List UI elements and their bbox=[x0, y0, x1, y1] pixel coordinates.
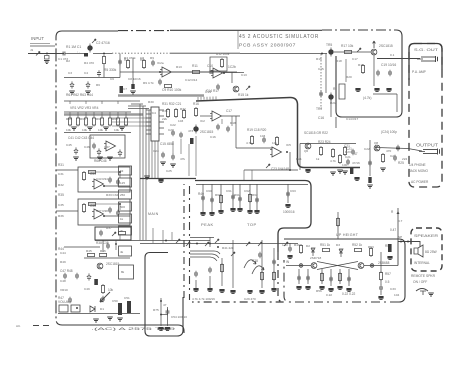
svg-text:0.22: 0.22 bbox=[326, 293, 332, 297]
wire left lead bbox=[286, 265, 311, 267]
svg-text:C63: C63 bbox=[290, 189, 296, 193]
resistor R17 bbox=[345, 50, 352, 53]
cap x103 bbox=[101, 296, 105, 302]
svg-text:IC5: IC5 bbox=[286, 143, 291, 147]
svg-text:R35: R35 bbox=[58, 193, 64, 197]
svg-text:PEAK: PEAK bbox=[201, 222, 214, 227]
wire drop from IC2a bbox=[222, 116, 232, 126]
ground2 bbox=[354, 177, 359, 180]
main board left edge (dash-dot) bbox=[56, 31, 62, 325]
grounds group2 bbox=[230, 208, 242, 211]
capacitor C6 bbox=[118, 59, 122, 65]
svg-text:C50: C50 bbox=[112, 299, 118, 303]
svg-text:R68: R68 bbox=[112, 117, 118, 121]
wire run to title area bbox=[170, 52, 240, 54]
resistor bbox=[343, 146, 346, 156]
ground at input bbox=[44, 61, 50, 64]
ground left bbox=[93, 319, 99, 322]
svg-text:2SC1815: 2SC1815 bbox=[200, 130, 214, 134]
feedback box around IC2 bbox=[210, 57, 227, 71]
ground C19 bbox=[374, 88, 379, 91]
wire TR6 emitter down bbox=[373, 55, 375, 86]
svg-text:100: 100 bbox=[342, 163, 347, 167]
IC4 left pin stubs bbox=[146, 110, 151, 134]
transistor Q3 bbox=[233, 86, 239, 92]
svg-text:0.47: 0.47 bbox=[390, 228, 396, 232]
svg-text:C51: C51 bbox=[124, 296, 130, 300]
svg-text:C29 470: C29 470 bbox=[244, 297, 256, 301]
transistor Q1 bbox=[87, 44, 92, 53]
svg-text:8k: 8k bbox=[121, 270, 125, 274]
stub verticals above bus bbox=[120, 228, 172, 243]
stage1 input wire bbox=[56, 169, 78, 171]
resistor bbox=[174, 108, 177, 118]
bus junction arrows mid bbox=[246, 242, 288, 246]
cap output sec bbox=[346, 159, 350, 165]
extra EQ wiring stubs bbox=[70, 112, 126, 118]
op-amp IC3 bbox=[104, 141, 116, 151]
ground bars peak group bbox=[200, 210, 223, 215]
arrow at Q1 bbox=[92, 39, 96, 43]
EQ block top rail bbox=[64, 100, 131, 102]
vertical rail x233 bbox=[232, 240, 234, 288]
svg-text:C33 R34: C33 R34 bbox=[96, 177, 108, 181]
electrolytic x370 bbox=[368, 177, 371, 183]
pot box VR12 bbox=[71, 305, 80, 312]
svg-text:C12 R14: C12 R14 bbox=[185, 78, 197, 82]
svg-text:C17: C17 bbox=[352, 57, 358, 61]
wire from IC2a to lower stage bbox=[235, 116, 237, 148]
svg-text:47: 47 bbox=[354, 152, 358, 156]
arrow in box3 bbox=[112, 232, 116, 236]
bus vertical bundle bbox=[140, 104, 149, 240]
input wire arrow bbox=[36, 52, 40, 56]
svg-text:R61 R62 R63 R64: R61 R62 R63 R64 bbox=[66, 93, 93, 97]
ground bbox=[160, 162, 166, 165]
pot wiper arrow bbox=[100, 292, 110, 302]
out wire box1 bbox=[104, 185, 130, 187]
first stage bus wire bbox=[64, 77, 120, 79]
power amp module A outline with step bbox=[195, 181, 311, 253]
ground TR6 bbox=[355, 88, 360, 91]
svg-text:R18: R18 bbox=[336, 59, 342, 63]
svg-text:250: 250 bbox=[120, 193, 125, 197]
capacitor C19 bbox=[376, 70, 380, 76]
electrolytic CB2 bbox=[127, 301, 131, 313]
extra bus arrows bbox=[205, 239, 219, 246]
svg-text:R46: R46 bbox=[100, 249, 106, 253]
svg-text:C7: C7 bbox=[123, 87, 127, 91]
board B bottom dashed edge bbox=[284, 260, 399, 302]
svg-text:R31 R32 C21: R31 R32 C21 bbox=[162, 102, 182, 106]
emitter resistor bank bbox=[320, 269, 351, 286]
svg-text:R9: R9 bbox=[150, 56, 154, 60]
comps in box3 bbox=[99, 230, 103, 236]
svg-text:C24: C24 bbox=[153, 149, 159, 153]
vertical stub x346 bbox=[345, 59, 347, 82]
transistor Q6 bbox=[305, 143, 311, 149]
density labels EQ bbox=[66, 117, 119, 149]
node bbox=[103, 53, 105, 55]
svg-text:470: 470 bbox=[386, 149, 391, 153]
box B: cap C30 bbox=[288, 246, 292, 252]
transistor Q9 bbox=[97, 263, 103, 269]
power amp module dashed left boundary bbox=[189, 186, 191, 300]
resistor R8 bbox=[142, 59, 145, 69]
svg-text:R9 4.7k: R9 4.7k bbox=[143, 81, 154, 85]
ground C20 bbox=[386, 88, 391, 91]
svg-text:1000/16: 1000/16 bbox=[283, 210, 295, 214]
electrolytic right bbox=[388, 244, 392, 252]
main board bottom edge bbox=[62, 325, 184, 333]
svg-text:4.7k 4.7k 100/16: 4.7k 4.7k 100/16 bbox=[192, 297, 215, 301]
svg-text:D3: D3 bbox=[336, 243, 340, 247]
down wires from IC area bbox=[173, 136, 196, 176]
cap bbox=[179, 132, 183, 138]
ground under C4 bbox=[85, 91, 91, 94]
output stage board B outline bbox=[284, 239, 405, 302]
svg-text:R40: R40 bbox=[198, 192, 204, 196]
left column stage box 2 bbox=[78, 199, 130, 225]
ground under C30 bbox=[287, 255, 292, 258]
resistor R20 bbox=[275, 136, 278, 146]
svg-text:(4.7k): (4.7k) bbox=[363, 96, 371, 100]
vertical wire x118 bbox=[119, 54, 121, 78]
resistor R19 bbox=[250, 135, 253, 145]
svg-text:R18: R18 bbox=[230, 121, 236, 125]
pot wiper arc 2 bbox=[252, 266, 264, 274]
svg-text:C48: C48 bbox=[60, 279, 66, 283]
svg-text:VR1 VR2 VR3 VR4: VR1 VR2 VR3 VR4 bbox=[70, 106, 99, 110]
svg-text:TOP: TOP bbox=[247, 222, 257, 227]
density labels midsection bbox=[162, 107, 347, 167]
stub verticals to module edge bbox=[244, 170, 252, 180]
wire y170 bbox=[244, 169, 298, 171]
svg-text:R33 C32: R33 C32 bbox=[106, 193, 118, 197]
tiny texts in slider boxes bbox=[120, 169, 125, 274]
speaker symbol bbox=[414, 245, 423, 257]
svg-text:R17 10k: R17 10k bbox=[341, 44, 354, 48]
op-amp IC2a mid bbox=[210, 111, 222, 121]
op-amp box2 bbox=[92, 209, 104, 219]
svg-text:45 2 ACOUSTIC SIMULATOR: 45 2 ACOUSTIC SIMULATOR bbox=[239, 34, 319, 40]
out wire box2 bbox=[104, 215, 130, 217]
input wire bbox=[28, 53, 64, 55]
svg-text:R2: R2 bbox=[66, 59, 70, 63]
caps under IC2a bbox=[216, 124, 220, 130]
svg-text:4.7: 4.7 bbox=[398, 219, 403, 223]
svg-text:R38 C38: R38 C38 bbox=[96, 241, 109, 245]
svg-text:R61: R61 bbox=[234, 193, 240, 197]
horizontal feeds from EQ to IC bbox=[112, 118, 151, 126]
resistor R51 bbox=[323, 248, 330, 251]
ground CB1 bbox=[117, 318, 123, 321]
title block left tick bbox=[237, 31, 239, 49]
electrolytic C7 bbox=[120, 86, 124, 93]
second stage wire bbox=[120, 71, 237, 73]
svg-text:R30: R30 bbox=[148, 100, 154, 104]
svg-text:R25: R25 bbox=[398, 161, 404, 165]
svg-text:R53: R53 bbox=[368, 245, 374, 249]
svg-text:C13: C13 bbox=[241, 73, 247, 77]
svg-text:R31: R31 bbox=[58, 163, 64, 167]
svg-text:IC2: IC2 bbox=[200, 119, 205, 123]
capacitor C20 bbox=[388, 70, 392, 76]
svg-text:IC2a: IC2a bbox=[157, 61, 164, 65]
wire from output node to output stage top bbox=[335, 117, 337, 128]
feedback resistor R10 bbox=[165, 84, 172, 87]
diode D1 bbox=[90, 306, 95, 312]
bus wire upper bbox=[95, 240, 189, 242]
svg-text:C21: C21 bbox=[345, 155, 351, 159]
right column resistor bbox=[379, 271, 382, 281]
node top C52 bbox=[160, 300, 162, 302]
svg-text:R49: R49 bbox=[60, 260, 66, 264]
capacitor C11 bbox=[216, 84, 220, 90]
svg-text:500: 500 bbox=[120, 205, 125, 209]
caps on verticals bbox=[201, 194, 223, 204]
electrolytic C22 bbox=[190, 138, 194, 144]
power transistor crossing wires bbox=[317, 262, 358, 270]
bus entering box A wires bbox=[190, 238, 214, 241]
svg-text:C2 47/16: C2 47/16 bbox=[96, 41, 110, 45]
svg-text:47k: 47k bbox=[180, 157, 185, 161]
parts under box3 bbox=[106, 240, 117, 250]
cap bbox=[351, 149, 355, 155]
svg-text:ON / OFF: ON / OFF bbox=[413, 280, 427, 284]
EQ block second rail bbox=[64, 111, 131, 113]
ground under IC4 bbox=[144, 176, 150, 179]
svg-text:R21: R21 bbox=[330, 101, 336, 105]
svg-text:R65: R65 bbox=[66, 117, 72, 121]
ground under out bbox=[380, 168, 386, 171]
svg-text:R21: R21 bbox=[296, 157, 302, 161]
preamp board right boundary (dash-dot vertical) bbox=[183, 184, 185, 298]
comps group2 bbox=[231, 194, 242, 202]
EQ upper stubs bbox=[70, 101, 118, 104]
density labels SG section bbox=[316, 53, 395, 121]
svg-text:R67: R67 bbox=[96, 117, 102, 121]
svg-text:R19: R19 bbox=[358, 63, 364, 67]
node on spine bbox=[407, 241, 409, 243]
electrolytic blob bbox=[94, 279, 98, 285]
svg-text:C8 10/16: C8 10/16 bbox=[128, 77, 141, 81]
svg-text:R1 1M C1: R1 1M C1 bbox=[66, 45, 81, 49]
misc labels for density bbox=[148, 100, 193, 173]
svg-text:JACK MONO: JACK MONO bbox=[409, 169, 428, 173]
cap2 bbox=[75, 273, 79, 279]
capacitor C1 bbox=[61, 52, 67, 56]
EQ cap row (j-hooks) bbox=[74, 147, 122, 156]
dotted rail x321 bbox=[320, 54, 322, 110]
S.G. plug bbox=[417, 56, 438, 62]
diode D2 bbox=[311, 248, 315, 256]
op-amp IC1a bbox=[160, 67, 172, 77]
svg-text:TR7: TR7 bbox=[316, 107, 322, 111]
svg-text:10k: 10k bbox=[66, 128, 71, 132]
svg-text:R37: R37 bbox=[106, 226, 112, 230]
small parts left of box B bbox=[258, 252, 262, 258]
wire after IC1a bbox=[172, 71, 210, 73]
wire into IC5 bbox=[236, 147, 272, 149]
density labels box A bbox=[206, 189, 296, 197]
svg-text:R7 470k: R7 470k bbox=[124, 56, 136, 60]
svg-text:C46: C46 bbox=[84, 145, 90, 149]
svg-text:R51 1k: R51 1k bbox=[320, 243, 331, 247]
grounds group3 bbox=[247, 210, 259, 213]
stage2 input wire bbox=[56, 210, 78, 212]
svg-text:0.1: 0.1 bbox=[390, 53, 395, 57]
small pad bbox=[84, 53, 88, 57]
box1 interior extras bbox=[88, 170, 121, 187]
cap left bbox=[68, 297, 72, 303]
transistor TR11 bbox=[358, 263, 364, 269]
j-cap bbox=[87, 273, 91, 280]
top feed wire in box B bbox=[289, 243, 291, 246]
svg-text:R31: R31 bbox=[162, 109, 168, 113]
svg-text:J1: J1 bbox=[30, 48, 34, 52]
speaker feed wire bbox=[398, 242, 420, 266]
resistor output sec bbox=[338, 154, 341, 164]
svg-text:R49: R49 bbox=[294, 243, 300, 247]
IC4 right pin stubs bbox=[159, 110, 164, 134]
resistor chain x103 bbox=[101, 284, 104, 294]
cap box1 bbox=[108, 177, 112, 183]
ground right top bbox=[387, 256, 392, 259]
svg-text:4k: 4k bbox=[120, 250, 124, 254]
vertical stub from output bbox=[231, 73, 233, 84]
wire TR5 to TR6 bbox=[334, 51, 371, 53]
main preamp board outline: top and right edges bbox=[62, 30, 118, 32]
density labels output bbox=[345, 141, 407, 165]
resistor R26 tall bbox=[339, 84, 345, 99]
resistor under out bbox=[381, 153, 384, 163]
svg-text:C19 10/16: C19 10/16 bbox=[381, 63, 396, 67]
right column cap bbox=[379, 285, 383, 291]
cap box2 bbox=[108, 207, 112, 213]
svg-text:INPUT: INPUT bbox=[31, 36, 44, 41]
wire stub bbox=[132, 58, 134, 86]
peak group vertical 1 bbox=[202, 184, 204, 212]
op-amp IC1b bbox=[211, 68, 223, 78]
ground stubs verticals bbox=[196, 276, 210, 288]
right connector box solid top bbox=[409, 44, 442, 81]
svg-text:C47: C47 bbox=[104, 145, 110, 149]
svg-text:2k: 2k bbox=[120, 229, 124, 233]
svg-text:C23: C23 bbox=[168, 128, 174, 132]
caps in mixer bbox=[92, 143, 96, 149]
bus wire lower bbox=[140, 243, 298, 245]
node bbox=[289, 169, 291, 171]
svg-text:1C2b: 1C2b bbox=[228, 65, 236, 69]
gray highlighted band (EQ send) bbox=[64, 113, 143, 116]
svg-text:C47 R48: C47 R48 bbox=[60, 269, 73, 273]
cap C53 bbox=[166, 309, 170, 315]
svg-text:SPEAKER: SPEAKER bbox=[414, 234, 438, 238]
svg-text:C15 4558: C15 4558 bbox=[160, 142, 174, 146]
node dark bbox=[76, 307, 78, 309]
transistor Q4 blob bbox=[193, 125, 198, 134]
svg-text:TR5: TR5 bbox=[326, 43, 332, 47]
hatch ticks on bus bbox=[198, 96, 216, 100]
svg-text:10k: 10k bbox=[82, 128, 87, 132]
junction bbox=[160, 314, 162, 316]
svg-text:C22: C22 bbox=[170, 123, 176, 127]
module A lower dashed edge bbox=[192, 252, 284, 302]
ground mid bbox=[107, 317, 113, 320]
svg-text:C49: C49 bbox=[84, 287, 90, 291]
density labels speaker bbox=[398, 219, 403, 239]
cross wire bbox=[161, 314, 168, 316]
group4 vertical bbox=[287, 184, 289, 203]
output wire to jack bbox=[375, 148, 422, 152]
capacitor C4 (j-hook) bbox=[86, 81, 90, 88]
caps above grounds left bbox=[194, 267, 212, 277]
arrow near Q3 bbox=[246, 86, 250, 90]
density labels left column bbox=[58, 172, 130, 311]
input jack sleeve bbox=[30, 43, 50, 45]
svg-text:MAIN: MAIN bbox=[148, 212, 159, 216]
density labels input bbox=[30, 48, 127, 91]
group3 vertical 2 bbox=[256, 184, 258, 210]
electrolytic bbox=[350, 168, 353, 174]
inner wire x397 bbox=[396, 94, 398, 112]
sub board box bottom left of PA bbox=[145, 253, 183, 337]
vertical x398 upper bbox=[397, 208, 399, 241]
transistor TR10 bbox=[311, 263, 317, 269]
resistor R52 bbox=[355, 248, 362, 251]
wire right lead bbox=[364, 265, 398, 267]
EQ resistor bank bbox=[68, 117, 127, 127]
thick bus with slope bbox=[196, 97, 360, 167]
svg-text:SP: SP bbox=[398, 235, 402, 239]
svg-text:22k: 22k bbox=[162, 117, 167, 121]
pot box VR11 bbox=[59, 305, 68, 312]
ground C53 bbox=[165, 327, 170, 330]
inner wire top y94 bbox=[373, 93, 397, 95]
node bbox=[159, 71, 161, 73]
wire from step to box B bbox=[337, 212, 339, 239]
dotted wire run bbox=[112, 52, 170, 54]
resistor R7 bbox=[126, 59, 129, 69]
svg-text:2SC1815: 2SC1815 bbox=[379, 44, 393, 48]
ground under C8 bbox=[130, 91, 136, 94]
svg-text:C6: C6 bbox=[110, 77, 114, 81]
arrow on rail bbox=[231, 252, 235, 256]
svg-text:125: 125 bbox=[120, 181, 125, 185]
EQ mid rail bbox=[64, 132, 131, 134]
vertical rail x262 bbox=[261, 240, 263, 288]
svg-text:R32: R32 bbox=[58, 183, 64, 187]
vertical stub x210 bbox=[209, 237, 211, 247]
right column ground bbox=[378, 296, 383, 299]
svg-text:C37 R38: C37 R38 bbox=[96, 209, 108, 213]
dark stage box 3 bbox=[95, 227, 131, 240]
resistor bbox=[331, 148, 334, 158]
svg-text:C60: C60 bbox=[206, 189, 212, 193]
svg-text:C33: C33 bbox=[390, 287, 396, 291]
svg-text:10k: 10k bbox=[98, 128, 103, 132]
node2 bbox=[400, 241, 402, 243]
svg-text:R4 470: R4 470 bbox=[84, 61, 94, 65]
gray band upper run bbox=[118, 94, 204, 96]
svg-text:OUTPUT: OUTPUT bbox=[416, 143, 439, 148]
wire out of IC1b bbox=[223, 72, 240, 74]
svg-text:1k: 1k bbox=[120, 217, 124, 221]
IC4 block bbox=[151, 107, 159, 141]
svg-text:REMOTE SPKR: REMOTE SPKR bbox=[411, 274, 436, 278]
main signal wire to Q1 bbox=[67, 53, 87, 55]
